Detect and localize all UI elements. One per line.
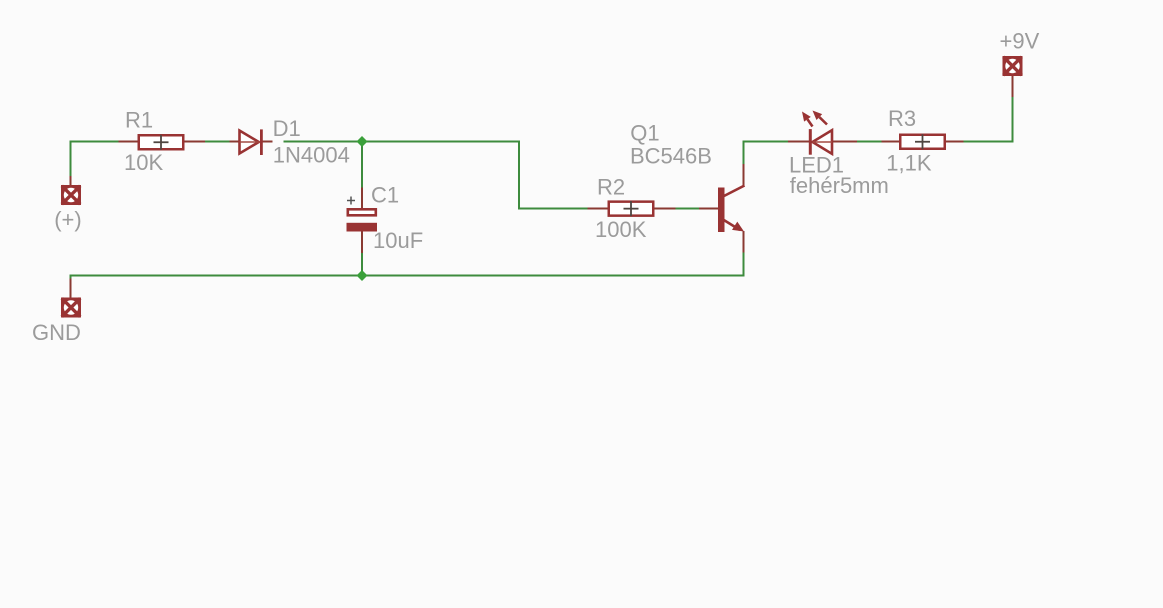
svg-text:1,1K: 1,1K xyxy=(886,150,932,175)
svg-text:10K: 10K xyxy=(124,150,163,175)
svg-text:R3: R3 xyxy=(888,106,916,131)
svg-text:R2: R2 xyxy=(597,175,625,200)
svg-text:BC546B: BC546B xyxy=(630,144,712,169)
svg-text:(+): (+) xyxy=(54,207,81,232)
svg-text:D1: D1 xyxy=(273,116,301,141)
svg-text:C1: C1 xyxy=(371,183,399,208)
svg-text:fehér5mm: fehér5mm xyxy=(790,173,889,198)
svg-text:10uF: 10uF xyxy=(373,228,423,253)
svg-text:GND: GND xyxy=(32,320,81,345)
svg-text:100K: 100K xyxy=(595,217,647,242)
svg-text:R1: R1 xyxy=(125,107,153,132)
svg-text:+9V: +9V xyxy=(1000,28,1040,53)
svg-text:1N4004: 1N4004 xyxy=(273,143,350,168)
svg-text:Q1: Q1 xyxy=(630,121,659,146)
